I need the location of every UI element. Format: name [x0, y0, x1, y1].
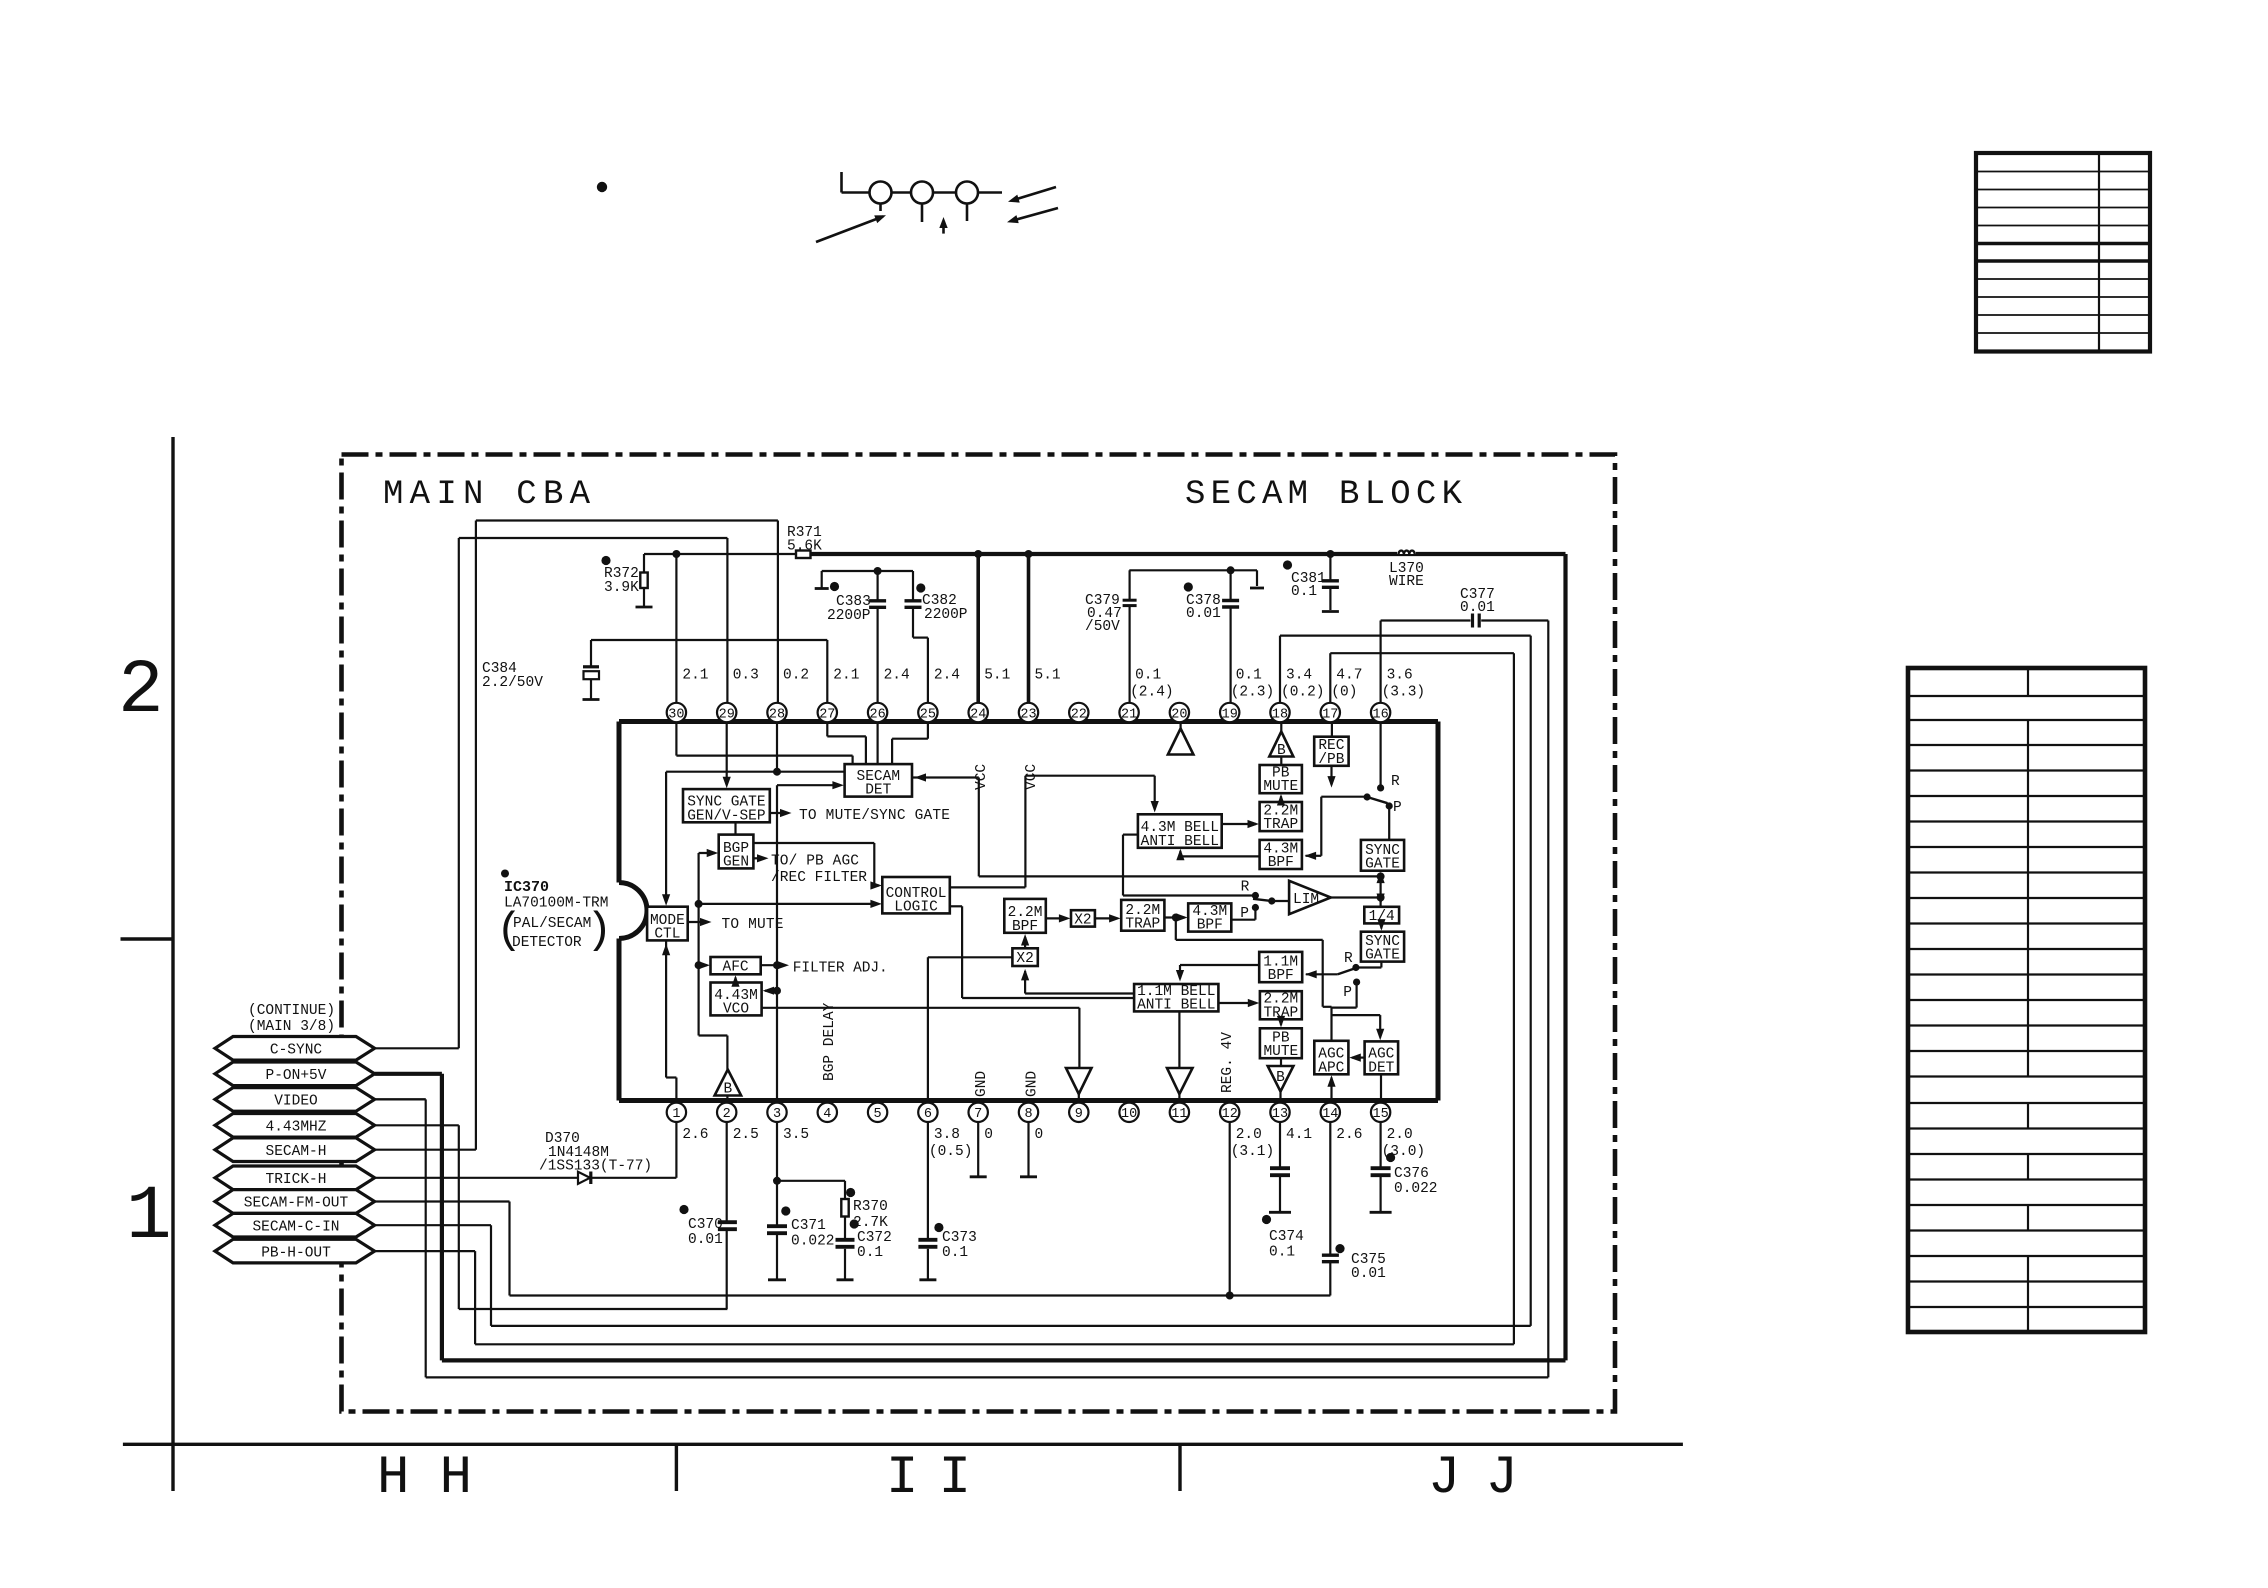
zone axis left line [171, 437, 174, 1491]
waveform table (right) [1908, 668, 2145, 1332]
capacitor C370 body [718, 1222, 737, 1229]
svg-text:1: 1 [126, 1174, 172, 1260]
switch wiper LIM [1253, 897, 1289, 904]
resistor R371 body [796, 551, 811, 559]
svg-text:3.4: 3.4 [1286, 668, 1312, 684]
svg-text:16: 16 [1372, 707, 1388, 722]
wire C379 to pin21 [1128, 606, 1130, 703]
svg-text:(2.4): (2.4) [1130, 685, 1174, 701]
block SYNC GATE GEN/V-SEP [683, 789, 770, 824]
svg-text:21: 21 [1121, 707, 1137, 722]
amp triangle B pin18 [1269, 722, 1293, 766]
capacitor C381 body [1322, 581, 1339, 588]
svg-text:5.1: 5.1 [1035, 668, 1061, 684]
wire C377 right loop [375, 621, 1549, 1378]
wire C376 bottom [1370, 1177, 1392, 1212]
capacitor C383 marker dot [830, 582, 839, 591]
IC370 top pins 30-16 [667, 703, 1391, 723]
wire pin30 internal [676, 722, 852, 765]
IC370 part number [504, 896, 608, 912]
svg-text:WIRE: WIRE [1389, 574, 1424, 590]
block PB MUTE lower [1260, 1028, 1302, 1060]
arrow X2lower to BPF [1021, 934, 1029, 948]
svg-text:(0.2): (0.2) [1281, 685, 1325, 701]
block PB MUTE upper [1260, 765, 1302, 795]
inductor L370 [1397, 549, 1416, 554]
wire pin6 down [927, 1122, 929, 1239]
wire pin3 down [773, 1122, 781, 1225]
wire TRICK-H to D370 [375, 1177, 578, 1179]
svg-text:30: 30 [668, 707, 684, 722]
svg-text:2.2/50V: 2.2/50V [482, 675, 543, 691]
amp triangle B pin13 [1268, 1058, 1294, 1100]
R370 label [853, 1199, 888, 1231]
wire C382 to pin25 [913, 608, 928, 703]
revision table (top right) [1976, 153, 2150, 352]
arrow TRAPlow to PBMUTE low [1277, 1016, 1285, 1028]
svg-text:GEN/V-SEP: GEN/V-SEP [687, 808, 765, 824]
wire pin25 internal [892, 722, 928, 765]
svg-text:2: 2 [118, 648, 164, 734]
resistor R372 marker dot [601, 556, 610, 565]
svg-text:15: 15 [1372, 1107, 1388, 1122]
svg-text:0.1: 0.1 [1269, 1245, 1295, 1261]
wire 43BPF upper to ANTI BELL bottom [1176, 849, 1259, 861]
svg-text:SECAM-H: SECAM-H [266, 1144, 327, 1160]
capacitor C378 body [1222, 601, 1239, 608]
svg-text:14: 14 [1322, 1107, 1338, 1122]
svg-text:BGP DELAY: BGP DELAY [822, 1002, 838, 1081]
capacitor C375 body [1322, 1255, 1339, 1262]
svg-text:R370: R370 [853, 1199, 888, 1215]
svg-text:0: 0 [1035, 1127, 1044, 1143]
svg-text:/PB: /PB [1318, 752, 1344, 768]
block 2.2M TRAP lower [1260, 991, 1302, 1021]
wire C384 node [591, 640, 827, 703]
connector SECAM-FM-OUT [215, 1190, 375, 1214]
svg-text:0.01: 0.01 [688, 1232, 723, 1248]
D370 label [539, 1131, 652, 1175]
zone tick bottom 2 [1178, 1444, 1181, 1491]
wire LIM out [1331, 896, 1381, 898]
arrow into AFC [699, 961, 711, 969]
svg-text:10: 10 [1121, 1107, 1137, 1122]
arrow TRAPup to PBMUTE [1277, 794, 1285, 806]
svg-text:2.4: 2.4 [934, 668, 960, 684]
wire pin28 internal node [666, 722, 845, 776]
block 1.1M BELL ANTI BELL [1134, 984, 1218, 1014]
svg-text:4.43MHZ: 4.43MHZ [266, 1120, 327, 1136]
wire BGP GEN trunk to B amp [699, 1036, 728, 1070]
amp triangle pin20 [1168, 722, 1194, 755]
zone label II [886, 1448, 971, 1509]
svg-text:MUTE: MUTE [1263, 779, 1298, 795]
block AGC APC [1314, 1041, 1348, 1077]
wire 11BPF out [1176, 965, 1259, 982]
L370 label [1389, 561, 1424, 590]
wire C383 top node [815, 567, 912, 600]
svg-text:0.01: 0.01 [1186, 606, 1221, 622]
C383 label [827, 594, 871, 624]
capacitor C372 marker dot [850, 1219, 859, 1228]
arrow 11BELL to TRAP lower [1218, 999, 1259, 1007]
svg-text:6: 6 [924, 1107, 932, 1122]
arrow into VCO right [763, 987, 777, 995]
wire AGC DET to pin15 [1380, 1074, 1382, 1100]
svg-text:C376: C376 [1394, 1166, 1429, 1182]
wire to MODE CTL arrow [662, 772, 670, 906]
title MAIN CBA [383, 476, 591, 514]
connector SECAM-H [215, 1138, 375, 1162]
capacitor C381 marker dot [1283, 560, 1292, 569]
label REG.4V [1220, 1032, 1236, 1093]
buffer triangle pin11 [1167, 1068, 1193, 1101]
amp triangle B pin2 [715, 1070, 742, 1098]
capacitor C373 marker dot [934, 1223, 943, 1232]
capacitor C371 marker dot [781, 1206, 790, 1215]
svg-text:(2.3): (2.3) [1231, 685, 1275, 701]
svg-text:0.022: 0.022 [791, 1234, 835, 1250]
svg-text:3.6: 3.6 [1387, 668, 1413, 684]
zone tick bottom 1 [675, 1444, 678, 1491]
C381 label [1291, 571, 1326, 600]
connector 4.43MHZ [215, 1114, 375, 1138]
wire D370 to pin1 [592, 1122, 677, 1178]
block BGP GEN [719, 835, 754, 871]
svg-text:P-ON+5V: P-ON+5V [266, 1068, 327, 1084]
svg-text:13: 13 [1272, 1107, 1288, 1122]
C372 label [857, 1230, 892, 1261]
svg-text:R: R [1241, 880, 1250, 896]
svg-text:TO MUTE: TO MUTE [722, 917, 784, 933]
svg-text:2.5: 2.5 [733, 1127, 759, 1143]
C375 label [1351, 1252, 1386, 1282]
wire C373 bottom [919, 1249, 936, 1280]
wire pin16 internal [1377, 722, 1384, 792]
wire C381 bottom [1322, 588, 1339, 612]
wire C383 to pin26 [876, 608, 878, 703]
svg-text:REG. 4V: REG. 4V [1220, 1032, 1236, 1093]
node C381 bus dot [1326, 550, 1334, 558]
block 4.43M VCO [711, 983, 762, 1018]
svg-text:DET: DET [865, 783, 891, 799]
arrow up under head 2 [939, 217, 947, 234]
label GND pin7 [974, 1071, 990, 1097]
C382 label [922, 593, 968, 623]
arrow into 11BPF [1305, 970, 1338, 978]
wire pin17 to RECPB [1331, 722, 1333, 737]
svg-text:SECAM-FM-OUT: SECAM-FM-OUT [244, 1196, 349, 1212]
svg-text:IC370: IC370 [504, 879, 549, 896]
svg-text:0.022: 0.022 [1394, 1181, 1438, 1197]
block CONTROL LOGIC [882, 877, 950, 915]
block 2.2M TRAP mid [1121, 900, 1164, 933]
reference dot [597, 182, 607, 192]
wire pin14 down through C375 [1329, 1122, 1331, 1296]
wire VCC bus right down [1563, 554, 1567, 1360]
svg-text:AFC: AFC [723, 960, 749, 976]
svg-text:DETECTOR: DETECTOR [512, 935, 582, 951]
capacitor C379 body [1123, 600, 1137, 605]
wire C378 top [1229, 570, 1231, 600]
block 4.3M BELL ANTI BELL [1138, 814, 1222, 850]
wire pin12 down [1229, 1122, 1231, 1296]
block X2 doubler lower [1012, 948, 1037, 967]
arrow into head 3 upper [1008, 187, 1056, 203]
capacitor C377 body [1473, 614, 1480, 628]
wire MODE CTL logic line [699, 900, 882, 908]
switch wiper lower [1338, 969, 1355, 975]
wire R370 to C372 [844, 1217, 846, 1240]
connector P-ON+5V [215, 1062, 375, 1086]
svg-text:2200P: 2200P [924, 607, 968, 623]
IC370 marker dot [501, 870, 509, 878]
svg-text:2.6: 2.6 [1336, 1127, 1362, 1143]
svg-text:26: 26 [869, 707, 885, 722]
label P pin16 switch [1393, 800, 1402, 816]
svg-text:27: 27 [819, 707, 835, 722]
svg-text:GND: GND [1025, 1071, 1041, 1097]
block AFC [711, 957, 761, 976]
svg-text:TRAP: TRAP [1125, 917, 1160, 933]
zone divider tick left [121, 937, 174, 940]
svg-text:DET: DET [1368, 1060, 1394, 1076]
wire pin23 VCC [1025, 550, 1033, 703]
C376 label [1394, 1166, 1438, 1197]
capacitor C384 body [583, 667, 599, 679]
svg-text:MUTE: MUTE [1263, 1044, 1298, 1060]
block REC/PB [1314, 737, 1348, 768]
R372 label [604, 566, 639, 596]
wire SYNCGATE to BGP GEN [734, 822, 736, 834]
svg-text:/REC FILTER: /REC FILTER [771, 870, 867, 886]
svg-text:17: 17 [1322, 707, 1338, 722]
svg-text:SECAM-C-IN: SECAM-C-IN [252, 1219, 339, 1235]
wire BGP GEN trunk [695, 853, 703, 1036]
svg-text:11: 11 [1171, 1107, 1187, 1122]
label BGP DELAY [822, 1002, 838, 1081]
block SYNC GATE lower [1361, 932, 1404, 964]
node P pin16 [1386, 802, 1393, 840]
svg-text:(3.3): (3.3) [1382, 685, 1426, 701]
zone label 1 [126, 1174, 172, 1260]
wire C378 to pin19 [1229, 608, 1231, 703]
block 4.3M BPF upper [1260, 840, 1302, 871]
C370 label [688, 1217, 723, 1248]
svg-text:C-SYNC: C-SYNC [270, 1043, 323, 1059]
capacitor C375 marker dot [1335, 1244, 1344, 1253]
wire pin3 to SECAM DET [777, 781, 844, 789]
svg-text:P: P [1343, 985, 1352, 1001]
wire TRAP junction to AGC APC [1176, 918, 1332, 1041]
svg-text:0.1: 0.1 [942, 1245, 968, 1261]
svg-text:PAL/SECAM: PAL/SECAM [513, 916, 591, 932]
zone label HH [377, 1448, 472, 1509]
capacitor C382 marker dot [916, 583, 925, 592]
svg-text:R: R [1391, 774, 1400, 790]
IC370 paren left [496, 906, 522, 956]
C377 label [1460, 587, 1495, 616]
wire B amp to pin2 [726, 1096, 728, 1101]
VCC label pin24 [974, 764, 990, 790]
IC370 paren right [586, 906, 612, 956]
wire pin24 VCC [974, 550, 982, 703]
capacitor C376 marker dot [1386, 1153, 1395, 1162]
block 2.2M BPF [1004, 899, 1046, 935]
resistor R370 marker dot [846, 1188, 855, 1197]
label R pin16 switch [1391, 774, 1400, 790]
svg-text:7: 7 [974, 1107, 982, 1122]
C378 label [1186, 593, 1221, 622]
svg-text:(3.1): (3.1) [1231, 1144, 1275, 1160]
top pin voltage labels [682, 668, 1425, 701]
svg-text:VIDEO: VIDEO [274, 1094, 318, 1110]
wire pin27 internal [827, 722, 866, 765]
wire pin30 to bus [675, 554, 677, 703]
label P lower switch [1343, 985, 1352, 1001]
svg-text:TO MUTE/SYNC GATE: TO MUTE/SYNC GATE [799, 808, 950, 824]
wire pin2 below C370 [726, 1231, 728, 1309]
svg-text:4.7: 4.7 [1336, 668, 1362, 684]
VCC label pin23 [1024, 764, 1040, 790]
zone axis bottom line [123, 1443, 1683, 1446]
wire CONTROL LOGIC out bottom [950, 906, 1134, 998]
svg-text:B: B [723, 1082, 732, 1098]
C379 label [1085, 593, 1122, 635]
connector TRICK-H [215, 1166, 375, 1190]
svg-text:TRICK-H: TRICK-H [266, 1172, 327, 1188]
connector PB-H-OUT [215, 1239, 375, 1263]
wire C-SYNC loop [375, 538, 728, 1048]
svg-text:VCO: VCO [723, 1001, 749, 1017]
arrow into head 3 lower [1007, 208, 1058, 223]
wire C382 top [912, 571, 914, 600]
wire C379 top node [1129, 566, 1264, 599]
wire 11BELL to pin11 buffer [1178, 1011, 1180, 1068]
capacitor C383 body [869, 601, 886, 608]
svg-text:TO/ PB AGC: TO/ PB AGC [771, 854, 859, 870]
IC370 label [504, 879, 549, 896]
label FILTER ADJ. [761, 961, 888, 977]
wire SECAM DET gating [913, 773, 1381, 876]
svg-text:2: 2 [723, 1107, 731, 1122]
svg-text:TRAP: TRAP [1263, 817, 1298, 833]
svg-text:(CONTINUE): (CONTINUE) [248, 1003, 335, 1019]
wire C374 bottom [1269, 1177, 1291, 1212]
capacitor C384 label [482, 661, 543, 691]
label TO MUTE/SYNC GATE [770, 808, 950, 824]
svg-text:0.2: 0.2 [783, 668, 809, 684]
C374 label [1269, 1229, 1304, 1261]
block SYNC GATE upper [1361, 840, 1404, 873]
wire pin6 internal [928, 957, 1013, 1100]
main cba dash-dot frame [342, 455, 1616, 1412]
IC370 bottom pins 1-15 [667, 1103, 1391, 1122]
svg-text:SECAM BLOCK: SECAM BLOCK [1185, 476, 1463, 514]
wire P-ON+5V from hexagon [375, 1072, 442, 1076]
label TO MUTE [688, 917, 784, 933]
svg-text:25: 25 [920, 707, 936, 722]
svg-text:0.1: 0.1 [1135, 668, 1161, 684]
svg-text:X2: X2 [1016, 951, 1033, 967]
wire pin7 stub [970, 1122, 987, 1177]
wire pin26 internal [876, 722, 878, 765]
wire R372 bottom [636, 588, 653, 607]
wire P-ON+5V left down [440, 1074, 444, 1361]
arrow BPF to X2 [1046, 914, 1071, 922]
node P lower [1332, 979, 1361, 1008]
svg-text:GND: GND [974, 1071, 990, 1097]
amp LIM [1289, 881, 1331, 914]
svg-text:28: 28 [769, 707, 785, 722]
svg-text:APC: APC [1318, 1060, 1344, 1076]
wire C381 top [1329, 554, 1331, 580]
wire C372 bottom [837, 1249, 854, 1280]
wire VCC bus thick [811, 552, 1566, 556]
wire pin13 down [1279, 1122, 1281, 1168]
svg-text:19: 19 [1222, 707, 1238, 722]
svg-text:0.1: 0.1 [857, 1245, 883, 1261]
bottom pin voltage labels [682, 1127, 1425, 1160]
zone label JJ [1428, 1448, 1518, 1509]
block 2.2M TRAP upper [1260, 802, 1302, 833]
wire switch to 43BPF upper [1305, 797, 1368, 860]
wire VCO out to pin9 buffer [762, 1008, 1080, 1068]
C371 label [791, 1218, 835, 1250]
svg-text:(0.5): (0.5) [929, 1144, 973, 1160]
wire pin18 loop SECAM-C-IN [375, 636, 1531, 1326]
svg-text:C370: C370 [688, 1217, 723, 1233]
svg-text:0.3: 0.3 [733, 668, 759, 684]
zone label 2 [118, 648, 164, 734]
svg-text:LOGIC: LOGIC [894, 899, 938, 915]
svg-text:8: 8 [1024, 1107, 1032, 1122]
svg-text:B: B [1276, 1070, 1285, 1086]
svg-text:/1SS133(T-77): /1SS133(T-77) [539, 1159, 652, 1175]
svg-text:0.1: 0.1 [1236, 668, 1262, 684]
svg-text:C374: C374 [1269, 1229, 1304, 1245]
svg-text:PB-H-OUT: PB-H-OUT [261, 1245, 331, 1261]
capacitor C376 body [1371, 1168, 1391, 1175]
capacitor C382 body [905, 601, 922, 608]
title SECAM BLOCK [1185, 476, 1463, 514]
svg-text:2.6: 2.6 [682, 1127, 708, 1143]
connector VIDEO [215, 1088, 375, 1112]
svg-text:(MAIN 3/8): (MAIN 3/8) [248, 1019, 335, 1035]
capacitor C371 body [767, 1226, 787, 1233]
arrow RECPB down [1327, 766, 1335, 788]
svg-text:BPF: BPF [1268, 855, 1294, 871]
capacitor C374 marker dot [1262, 1215, 1271, 1224]
connector SECAM-C-IN [215, 1213, 375, 1237]
svg-text:LIM: LIM [1293, 892, 1319, 908]
op-amp U IC370 body outline [619, 722, 1438, 1101]
capacitor C370 marker dot [679, 1205, 688, 1214]
label R lower switch [1344, 951, 1353, 967]
svg-text:5: 5 [874, 1107, 882, 1122]
capacitor C372 body [836, 1240, 855, 1247]
svg-text:2.0: 2.0 [1387, 1127, 1413, 1143]
label CONTINUE MAIN 3/8 [248, 1003, 335, 1035]
arrow to head 1 [816, 215, 886, 242]
svg-text:BPF: BPF [1197, 918, 1223, 934]
block 4.3M BPF mid [1188, 903, 1231, 933]
label R LIM switch [1241, 880, 1250, 896]
arrow TRAP to 43BPF [1164, 913, 1187, 921]
svg-text:2.0: 2.0 [1236, 1127, 1262, 1143]
IC370 function line2 [512, 935, 582, 951]
wire sync gate vertical [1377, 872, 1385, 907]
